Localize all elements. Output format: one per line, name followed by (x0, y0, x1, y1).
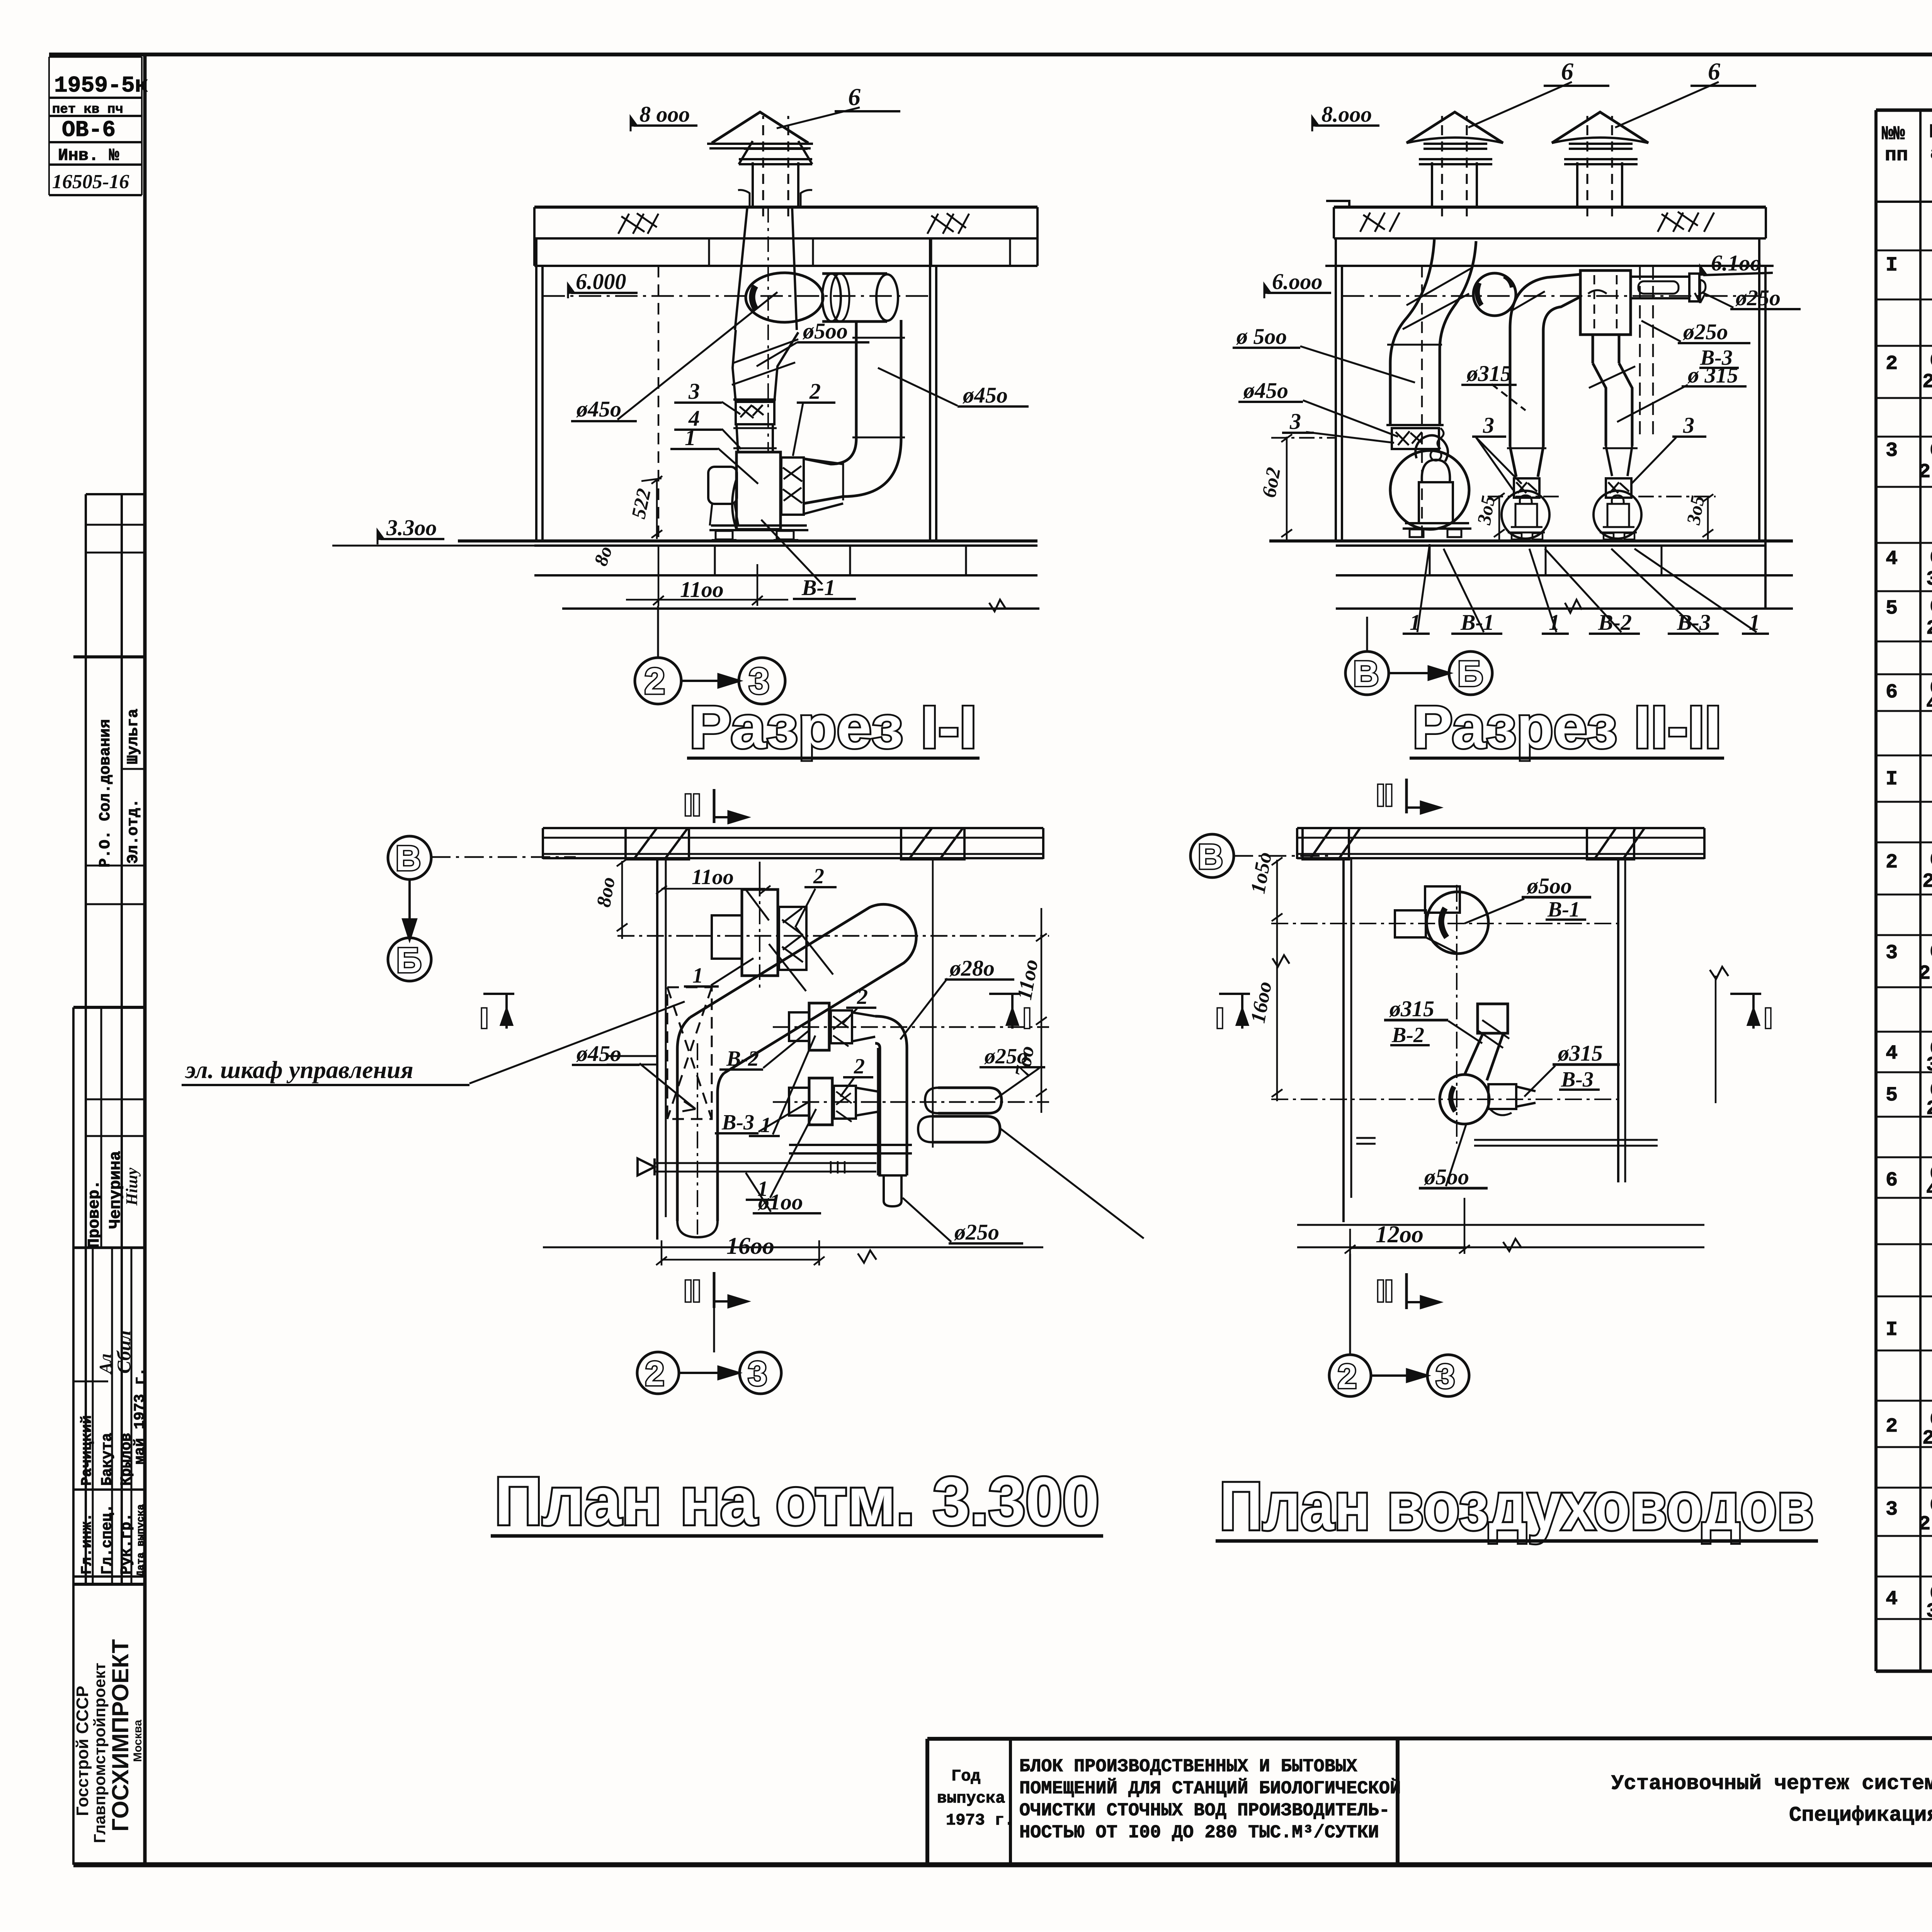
flexible insert V-1 (pos 3) (1392, 428, 1444, 449)
svg-text:План на отм. 3.300: План на отм. 3.300 (495, 1464, 1099, 1539)
svg-text:I: I (1886, 768, 1898, 791)
duct V-3 riser (1589, 335, 1638, 476)
roof slab section I-I (534, 206, 1037, 209)
level 8.000 (1312, 117, 1379, 131)
svg-text:ø45o: ø45o (1243, 378, 1288, 403)
roof slab section II-II (1334, 206, 1766, 209)
svg-text:ø5oo: ø5oo (1423, 1164, 1469, 1189)
roof brick joints (709, 238, 1010, 266)
svg-text:В-2: В-2 (726, 1047, 759, 1071)
svg-text:Главпромстройпроект: Главпромстройпроект (90, 1663, 109, 1843)
svg-text:В: В (396, 839, 421, 878)
fan unit V-2 plan (789, 1003, 875, 1050)
svg-text:2-494-8: 2-494-8 (1918, 1513, 1932, 1536)
svg-text:№ типового: № типового (1930, 121, 1932, 143)
svg-text:I: I (1216, 1003, 1224, 1034)
svg-text:12oo: 12oo (1376, 1221, 1423, 1248)
callout d315 mid (1461, 384, 1526, 410)
svg-text:1: 1 (1549, 610, 1560, 635)
wall opening circle (1473, 273, 1516, 316)
svg-text:ø 315: ø 315 (1687, 362, 1738, 388)
floor slab (458, 541, 1039, 611)
svg-text:3.904-3(прим): 3.904-3(прим) (1926, 1054, 1932, 1077)
svg-text:1: 1 (1410, 610, 1421, 635)
svg-text:16505-16: 16505-16 (52, 171, 129, 193)
section marks I-I sides (483, 994, 1020, 1029)
callout d500 bottom plan4 (1419, 1124, 1488, 1188)
svg-text:2: 2 (854, 1054, 865, 1078)
svg-text:8.ooo: 8.ooo (1321, 102, 1372, 127)
duct V-2 riser and top elbow (1507, 274, 1580, 477)
svg-text:6.000: 6.000 (576, 269, 626, 294)
plenum box V-2/V-3 (1580, 270, 1631, 335)
svg-text:5: 5 (1886, 1084, 1898, 1107)
svg-text:3: 3 (1289, 409, 1301, 434)
svg-text:6.1oo: 6.1oo (1711, 250, 1762, 276)
svg-text:3: 3 (1886, 942, 1898, 964)
svg-text:4.904-I2: 4.904-I2 (1926, 1179, 1932, 1202)
svg-text:1: 1 (692, 964, 703, 988)
taper to flex (1510, 447, 1543, 477)
svg-text:БЛОК ПРОИЗВОДСТВЕННЫХ И БЫТО: БЛОК ПРОИЗВОДСТВЕННЫХ И БЫТОВЫХ (1019, 1757, 1357, 1777)
svg-text:ø5oo: ø5oo (802, 318, 848, 344)
svg-text:2: 2 (1886, 352, 1898, 375)
svg-text:Чепурина: Чепурина (106, 1151, 125, 1229)
svg-text:ø28o: ø28o (949, 956, 995, 981)
svg-text:I: I (1886, 1318, 1898, 1341)
callouts 6 (1468, 82, 1756, 128)
svg-text:ø25o: ø25o (984, 1044, 1028, 1068)
svg-text:№№: №№ (1882, 123, 1905, 145)
fan V-1 plan4 (1395, 886, 1488, 954)
svg-text:май 1973 г.: май 1973 г. (132, 1367, 148, 1464)
level 3.300 (332, 531, 543, 546)
svg-text:Нішу: Нішу (123, 1168, 141, 1206)
svg-text:План воздуховодов: План воздуховодов (1219, 1469, 1814, 1544)
svg-text:Гл.спец.: Гл.спец. (99, 1504, 116, 1575)
svg-text:2: 2 (813, 864, 824, 888)
svg-text:Госстрой СССР: Госстрой СССР (73, 1686, 92, 1816)
dim 800 (617, 859, 696, 939)
callout d250 lower (903, 1198, 1023, 1243)
level 6.000 second (1342, 295, 1759, 297)
riser duct of V-1 with flex (pos 3) and gate (pos 4) (732, 207, 798, 452)
page outer frame bottom (73, 1862, 1932, 1867)
floor slab II-II (1269, 541, 1793, 613)
svg-text:II: II (1376, 778, 1393, 812)
duct centerline (697, 1043, 698, 1235)
callout d450 left (1238, 400, 1398, 437)
svg-text:Дата выпуска: Дата выпуска (135, 1504, 146, 1577)
svg-text:I: I (1764, 1003, 1772, 1034)
svg-text:3: 3 (1886, 439, 1898, 462)
column block left (626, 828, 689, 859)
table header text (1882, 119, 1932, 196)
svg-text:ø315: ø315 (1466, 361, 1512, 386)
svg-text:Рачицкий: Рачицкий (79, 1415, 95, 1486)
d450 diagonal duct with round end (677, 904, 916, 1237)
svg-text:I: I (1023, 1003, 1031, 1034)
fan V-2/V-3 plan4 (1440, 1075, 1536, 1124)
column block right (901, 828, 964, 859)
fan unit V-1 plan (712, 881, 778, 989)
svg-text:В-1: В-1 (801, 575, 835, 600)
svg-text:2.494-I: 2.494-I (1926, 617, 1932, 640)
under-floor callouts (1403, 544, 1769, 634)
page outer frame top (49, 53, 1932, 56)
roof hatch left (618, 213, 658, 234)
svg-text:ø25o: ø25o (954, 1219, 999, 1245)
d100 pipe bottom (638, 1158, 876, 1175)
svg-text:В-3: В-3 (721, 1111, 754, 1134)
svg-text:ø25o: ø25o (1735, 285, 1781, 310)
flexible insert on fan outlet (pos 2) (781, 457, 804, 515)
svg-text:Р.О. Сол.дования: Р.О. Сол.дования (97, 719, 114, 867)
fan unit V-3 plan (789, 1078, 878, 1125)
svg-text:В-1: В-1 (1547, 898, 1580, 922)
svg-text:I: I (480, 1003, 488, 1034)
callout d250 far right leader (1000, 1128, 1144, 1238)
svg-text:5: 5 (1886, 597, 1898, 620)
inventory boxes top-left (48, 57, 50, 195)
svg-text:В-2: В-2 (1391, 1023, 1424, 1047)
svg-text:3.904-3(прим): 3.904-3(прим) (1926, 568, 1932, 591)
svg-text:НОСТЬЮ ОТ I00 ДО 280 ТЫС.М³/СУ: НОСТЬЮ ОТ I00 ДО 280 ТЫС.М³/СУТКИ (1019, 1823, 1379, 1843)
system B-2 section (1886, 728, 1932, 1202)
svg-text:11oo: 11oo (692, 865, 734, 889)
callout d450 (right duct) (878, 368, 1029, 406)
section mark II bottom (714, 1272, 747, 1352)
dim 1200 bottom plan4 (1297, 1198, 1704, 1254)
svg-text:1: 1 (1749, 610, 1760, 635)
callout d500 left (1233, 346, 1415, 383)
page outer frame left (143, 54, 147, 1867)
d100 stub duct to right (1631, 274, 1706, 301)
project description (1019, 1757, 1401, 1843)
svg-text:ø45o: ø45o (576, 1041, 621, 1066)
dim 1100 top (656, 862, 770, 896)
svg-text:2: 2 (809, 379, 821, 404)
svg-text:2: 2 (1886, 1415, 1898, 1438)
elbow to fan outlet (804, 439, 901, 503)
shelf lines (607, 1056, 912, 1153)
umbrella cap T-5 (712, 112, 808, 143)
svg-text:2.494-I: 2.494-I (1926, 1097, 1932, 1120)
svg-text:6: 6 (1561, 58, 1573, 85)
callout V-1 (761, 520, 856, 599)
roof hatch right (1658, 212, 1714, 232)
transition duct up with flanges (733, 330, 798, 402)
svg-text:4: 4 (1886, 1588, 1898, 1611)
title strip columns (85, 494, 87, 1584)
d250 horizontal ducts right (918, 1088, 1002, 1142)
centerlines plan 4 (1271, 885, 1619, 1144)
grid/dim lines right side (696, 858, 1049, 1148)
callout d315 B-2 (1384, 1020, 1482, 1045)
chimney 2 with umbrella (1552, 112, 1648, 216)
callout 3 mid (1472, 437, 1522, 490)
svg-text:ø25o: ø25o (1682, 319, 1728, 344)
svg-text:Серия: Серия (1930, 941, 1932, 964)
svg-text:Рук.гр.: Рук.гр. (118, 1513, 135, 1575)
sheet title (1611, 1772, 1932, 1827)
svg-text:3: 3 (748, 1354, 767, 1393)
callout d100 (746, 1173, 821, 1213)
svg-text:ø315: ø315 (1557, 1041, 1603, 1066)
svg-text:Инв. №: Инв. № (58, 146, 119, 165)
svg-text:1959-5к: 1959-5к (54, 73, 148, 99)
top wall plan 4 (1297, 828, 1704, 859)
flexible insert V-2 (pos 3) (1514, 478, 1539, 498)
svg-text:2-494-8: 2-494-8 (1922, 870, 1932, 893)
system B-1 section (1886, 218, 1932, 716)
svg-text:пп: пп (1885, 145, 1908, 167)
svg-text:6.ooo: 6.ooo (1272, 269, 1323, 294)
svg-text:Эл.отд.: Эл.отд. (125, 799, 142, 864)
svg-text:2-494-8: 2-494-8 (1922, 1427, 1932, 1450)
flex insert V-1 plan (pos 2) (779, 907, 806, 970)
year cell (937, 1767, 1014, 1830)
callout 1 to duct (684, 958, 753, 986)
d280 vertical pipe with elbow (875, 1016, 907, 1206)
dim 602 (1271, 434, 1335, 541)
walls section I-I (536, 238, 936, 540)
svg-text:В: В (1353, 654, 1379, 694)
svg-text:2: 2 (857, 985, 868, 1009)
top wall plan 3 (543, 828, 1043, 859)
svg-text:ø45o: ø45o (962, 383, 1008, 408)
svg-text:Серия: Серия (1930, 350, 1932, 372)
svg-text:В-2: В-2 (1598, 610, 1632, 635)
svg-text:16oo: 16oo (726, 1233, 774, 1259)
svg-text:Сбил: Сбил (113, 1330, 134, 1374)
callout d250 top (1702, 292, 1801, 309)
svg-text:I: I (1886, 254, 1898, 277)
section bubbles 2 and 3 plan (637, 1352, 781, 1394)
svg-text:4: 4 (1886, 548, 1898, 570)
svg-text:3: 3 (1483, 413, 1494, 438)
callout 2 near V-1 (795, 887, 837, 927)
svg-text:ø 5oo: ø 5oo (1236, 324, 1287, 349)
svg-text:ø5oo: ø5oo (1526, 873, 1572, 898)
svg-text:2-494-8: 2-494-8 (1918, 962, 1932, 985)
svg-text:Москва: Москва (131, 1719, 144, 1762)
svg-text:3: 3 (688, 379, 700, 404)
flexible insert V-3 (pos 3) (1606, 478, 1631, 498)
svg-text:Серия: Серия (1930, 547, 1932, 570)
callout 3 left (1282, 432, 1394, 443)
svg-text:Серия: Серия (1930, 596, 1932, 619)
chimney upper flange (744, 144, 808, 149)
svg-text:Установочный чертеж систем В-I: Установочный чертеж систем В-I, В-2, В-3… (1611, 1772, 1932, 1796)
svg-text:Шульга: Шульга (125, 709, 142, 764)
section mark II bottom plan4 (1350, 1254, 1439, 1354)
right riser duct down (804, 320, 905, 514)
callout d450 (elbow, long leader) (571, 292, 777, 421)
roof stack opening (738, 190, 812, 207)
specification table grid (1876, 110, 1932, 1681)
svg-text:1973 г.: 1973 г. (946, 1811, 1014, 1830)
callout 3 right (1631, 437, 1706, 484)
svg-text:3.3oo: 3.3oo (386, 515, 437, 540)
svg-text:II: II (1376, 1274, 1393, 1308)
svg-text:2: 2 (645, 1354, 664, 1393)
system B-3 section (1886, 1217, 1932, 1623)
grid bubble B plan4 (1234, 855, 1329, 857)
grid line B with bubble (431, 856, 576, 858)
duct V-1 big bend (1386, 240, 1476, 426)
callout d315 B-3 (1524, 1065, 1620, 1097)
svg-text:альбома или: альбома или (1930, 143, 1932, 165)
base channel and feet (711, 524, 807, 527)
left wall plan 3 (657, 858, 666, 1240)
svg-text:3: 3 (1436, 1357, 1455, 1395)
svg-text:пет кв пч: пет кв пч (52, 102, 123, 117)
horizontal duct d450 to right (822, 274, 898, 321)
callout d280 (900, 978, 1014, 1039)
duct upper edge and cap (690, 904, 916, 1073)
svg-text:8 ooo: 8 ooo (639, 102, 690, 127)
level mark 8.000 (631, 117, 697, 131)
level 6.100 (1695, 266, 1773, 303)
callouts 3 4 1 (670, 402, 758, 484)
dim 1600 bottom (543, 1240, 1043, 1265)
svg-text:выпуска: выпуска (937, 1789, 1005, 1808)
svg-text:Разрез II-II: Разрез II-II (1412, 694, 1721, 760)
right squiggle (1710, 967, 1728, 979)
walls section II-II (1336, 238, 1765, 609)
dim 522 (641, 476, 662, 539)
title strip rows (86, 493, 145, 495)
svg-text:Год: Год (951, 1767, 981, 1786)
chimney 1 with umbrella (1406, 112, 1503, 216)
svg-text:ø1oo: ø1oo (757, 1189, 803, 1214)
section marks I-I plan4 (1219, 994, 1761, 1029)
callout d250 right (980, 1067, 1045, 1099)
svg-text:1: 1 (685, 425, 696, 450)
callout d500 B-1 (1464, 897, 1591, 923)
svg-text:Бакута: Бакута (99, 1433, 116, 1486)
svg-text:3.904-3(прим): 3.904-3(прим) (1926, 1600, 1932, 1623)
walls plan 4 (1297, 858, 1704, 1225)
fan V-1 with motor (1390, 435, 1471, 537)
fan V-2 (1502, 491, 1549, 539)
vertical duct bottom cap (677, 1221, 718, 1237)
dims left plan4 (1272, 857, 1289, 1101)
svg-text:6: 6 (1886, 681, 1898, 704)
column dashed line (658, 266, 660, 540)
section bubbles B and B2 (1345, 617, 1492, 695)
duct elbow ellipse (d500 bend) (746, 273, 823, 322)
svg-text:6: 6 (848, 83, 861, 111)
svg-text:В-3: В-3 (1677, 610, 1711, 635)
section mark II top (714, 789, 747, 823)
svg-text:2: 2 (645, 661, 665, 702)
svg-text:ОЧИСТКИ СТОЧНЫХ ВОД ПРОИЗВОДИТ: ОЧИСТКИ СТОЧНЫХ ВОД ПРОИЗВОДИТЕЛЬ- (1019, 1801, 1390, 1821)
callout 6 (umbrella) (777, 107, 900, 128)
fan V-3 (1594, 491, 1641, 539)
svg-text:6: 6 (1708, 58, 1720, 85)
svg-text:Б: Б (1458, 654, 1483, 694)
svg-text:Б: Б (396, 941, 422, 980)
dim 305 mid (1488, 493, 1561, 541)
svg-text:Серия: Серия (1930, 439, 1932, 462)
chimney lower flange (739, 141, 812, 164)
callout d250 V-3 (1641, 321, 1750, 368)
svg-text:Спецификация.: Спецификация. (1789, 1804, 1932, 1827)
svg-text:эл. шкаф управления: эл. шкаф управления (185, 1056, 413, 1083)
svg-text:3: 3 (1683, 413, 1694, 438)
callout d450 label (572, 1063, 696, 1111)
svg-text:4.904-I2: 4.904-I2 (1926, 693, 1932, 716)
svg-text:2-494-8: 2-494-8 (1922, 371, 1932, 393)
fan unit V-1 (pos 1) (708, 452, 808, 540)
outlet cone to flex (804, 459, 843, 464)
callout d315 right (1617, 385, 1747, 422)
section bubbles 2 and 3 (635, 606, 785, 704)
svg-text:В: В (1198, 838, 1223, 876)
svg-text:В-1: В-1 (1460, 610, 1494, 635)
svg-text:2: 2 (1886, 851, 1898, 874)
svg-text:ø315: ø315 (1389, 996, 1434, 1021)
svg-text:6: 6 (1886, 1169, 1898, 1192)
svg-text:ГОСХИМПРОЕКТ: ГОСХИМПРОЕКТ (107, 1639, 133, 1832)
level 6.000 line (543, 295, 930, 297)
svg-text:11oo: 11oo (680, 577, 724, 602)
section bubbles 2 and 3 plan4 (1329, 1355, 1469, 1396)
svg-text:II: II (684, 788, 701, 822)
roof hatch left (1360, 213, 1400, 232)
electric cabinet dashed on wall (667, 987, 712, 1119)
duct elbow into vertical run (677, 1017, 690, 1221)
dim 305 right (1638, 494, 1716, 541)
svg-text:В-3: В-3 (1561, 1068, 1594, 1092)
chimney stem (752, 162, 754, 207)
svg-text:3: 3 (1886, 1498, 1898, 1521)
svg-text:2-494-8: 2-494-8 (1918, 461, 1932, 483)
motor (708, 467, 737, 504)
callout 2 (793, 403, 835, 456)
duct V-2 diagonal plan4 (1464, 1004, 1509, 1080)
svg-text:ПОМЕЩЕНИЙ ДЛЯ СТАНЦИЙ БИОЛОГИЧ: ПОМЕЩЕНИЙ ДЛЯ СТАНЦИЙ БИОЛОГИЧЕСКОЙ (1019, 1778, 1401, 1799)
svg-text:2: 2 (1338, 1357, 1357, 1395)
roof hatch right (927, 213, 969, 234)
svg-text:II: II (684, 1274, 701, 1308)
callout d500 (757, 342, 869, 366)
hidden riser line V-3 to roof (1640, 267, 1653, 437)
dim 1100 (626, 546, 788, 606)
svg-text:Серия: Серия (1930, 849, 1932, 872)
shelf marks plan4 (1356, 1138, 1658, 1146)
svg-text:ОВ-6: ОВ-6 (62, 118, 116, 143)
svg-text:4: 4 (1886, 1042, 1898, 1065)
callout 2 and B-2 labels (719, 1008, 876, 1136)
svg-text:Ал: Ал (96, 1354, 115, 1375)
bottom title block (927, 1738, 1932, 1865)
svg-text:ø45o: ø45o (576, 396, 621, 422)
callout 2 and B-3 labels (715, 1077, 873, 1200)
svg-text:Разрез I-I: Разрез I-I (689, 694, 977, 760)
section mark II top plan4 (1406, 779, 1439, 813)
svg-text:Провер.: Провер. (85, 1180, 104, 1248)
svg-text:Гл.инж.: Гл.инж. (79, 1513, 95, 1575)
